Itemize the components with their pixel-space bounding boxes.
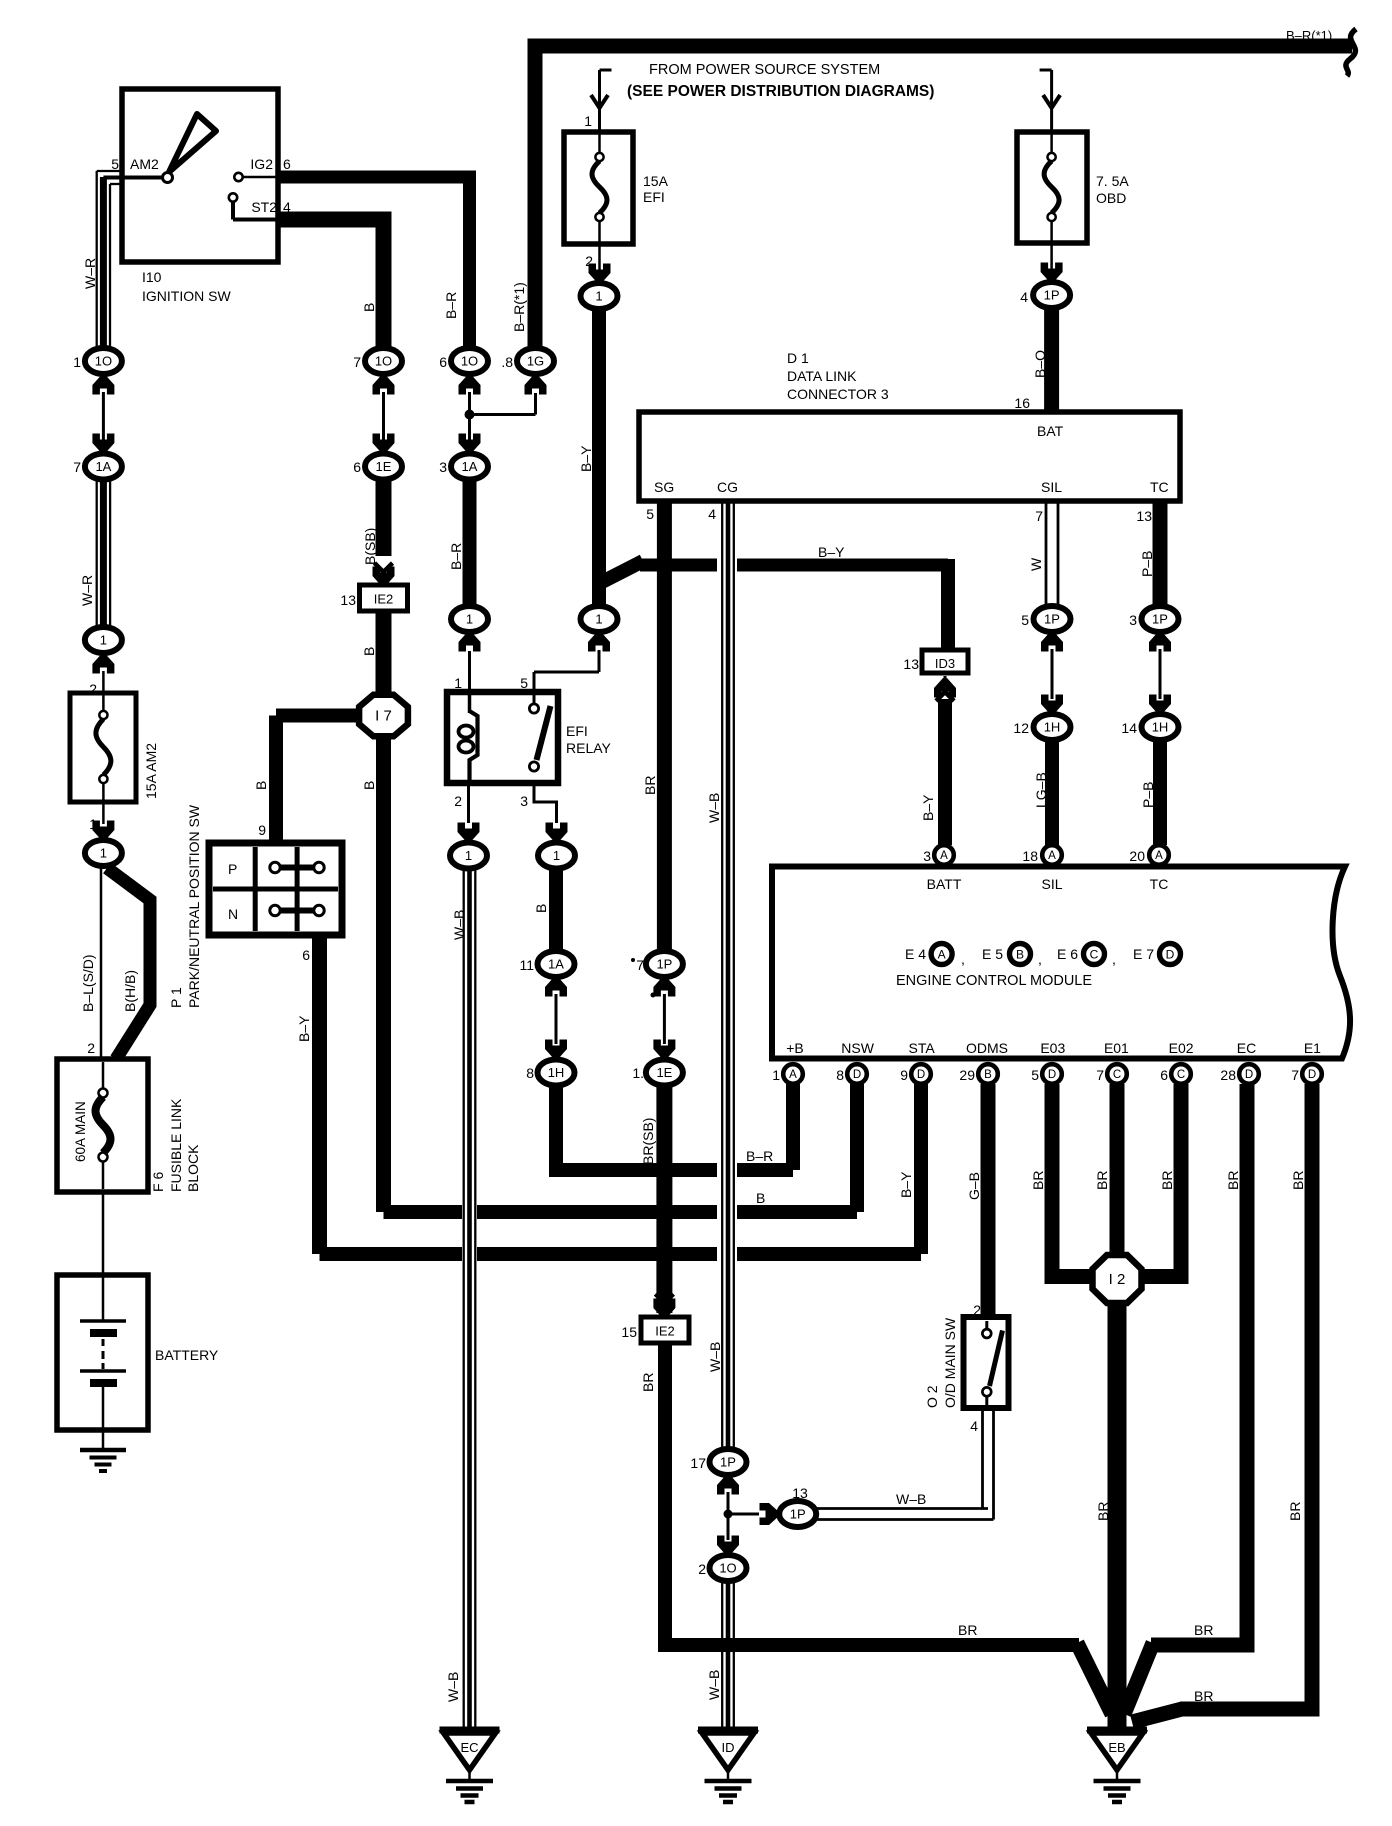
svg-text:1H: 1H (1152, 720, 1169, 735)
svg-text:D: D (917, 1069, 925, 1081)
svg-text:B–R(*1): B–R(*1) (1286, 28, 1332, 43)
svg-text:7: 7 (1035, 508, 1043, 524)
svg-text:4: 4 (970, 1418, 978, 1434)
svg-text:EFI: EFI (566, 723, 588, 739)
svg-text:OBD: OBD (1096, 190, 1126, 206)
svg-text:B–Y: B–Y (920, 794, 936, 821)
svg-text:B–Y: B–Y (578, 445, 594, 472)
svg-text:AM2: AM2 (130, 156, 159, 172)
svg-text:SIL: SIL (1041, 876, 1062, 892)
svg-text:1: 1 (595, 612, 602, 627)
svg-text:O/D MAIN SW: O/D MAIN SW (942, 1317, 958, 1408)
svg-text:(SEE POWER DISTRIBUTION DIAGRA: (SEE POWER DISTRIBUTION DIAGRAMS) (627, 83, 934, 100)
svg-text:E1: E1 (1304, 1040, 1321, 1056)
svg-text:IG2: IG2 (250, 156, 273, 172)
svg-text:CG: CG (717, 479, 738, 495)
svg-text:7: 7 (636, 957, 644, 973)
svg-text:1G: 1G (527, 354, 544, 369)
svg-text:1: 1 (100, 846, 107, 861)
svg-text:BR: BR (1194, 1688, 1213, 1704)
svg-text:D: D (853, 1069, 861, 1081)
svg-text:W–R: W–R (82, 258, 98, 289)
svg-text:2: 2 (87, 1040, 95, 1056)
svg-text:B(H/B): B(H/B) (122, 970, 138, 1012)
svg-text:C: C (1177, 1069, 1185, 1081)
svg-text:17: 17 (690, 1455, 706, 1471)
svg-text:EC: EC (460, 1740, 478, 1755)
svg-text:1E: 1E (376, 459, 392, 474)
svg-text:3: 3 (520, 793, 528, 809)
svg-text:5: 5 (111, 156, 119, 172)
svg-text:E 6: E 6 (1057, 946, 1078, 962)
svg-text:IGNITION SW: IGNITION SW (142, 288, 231, 304)
svg-text:ENGINE CONTROL MODULE: ENGINE CONTROL MODULE (896, 973, 1092, 989)
svg-text:BR: BR (1030, 1171, 1046, 1190)
svg-text:EC: EC (1237, 1040, 1256, 1056)
svg-text:BR: BR (642, 776, 658, 795)
svg-text:E01: E01 (1104, 1040, 1129, 1056)
svg-text:1H: 1H (1044, 720, 1061, 735)
svg-text:1: 1 (553, 848, 560, 863)
svg-text:6: 6 (353, 459, 361, 475)
svg-text:13: 13 (340, 592, 356, 608)
svg-text:D: D (1245, 1069, 1253, 1081)
svg-text:5: 5 (1031, 1067, 1039, 1083)
svg-text:5: 5 (520, 675, 528, 691)
svg-text:13: 13 (1136, 508, 1152, 524)
svg-text:B: B (533, 904, 549, 913)
svg-text:B–R: B–R (746, 1148, 773, 1164)
svg-text:BR: BR (1159, 1171, 1175, 1190)
svg-text:3: 3 (439, 459, 447, 475)
svg-text:6: 6 (283, 156, 291, 172)
svg-text:BR(SB): BR(SB) (640, 1118, 656, 1165)
svg-text:B–Y: B–Y (818, 544, 845, 560)
svg-text:4: 4 (708, 506, 716, 522)
svg-text:B: B (756, 1190, 765, 1206)
svg-text:7: 7 (353, 354, 361, 370)
svg-text:FUSIBLE LINK: FUSIBLE LINK (168, 1098, 184, 1192)
svg-text:1A: 1A (548, 957, 564, 972)
svg-text:4: 4 (1020, 289, 1028, 305)
svg-text:B: B (253, 781, 269, 790)
svg-text:B–R: B–R (443, 292, 459, 319)
svg-text:2: 2 (454, 793, 462, 809)
svg-text:13: 13 (792, 1485, 808, 1501)
svg-text:15: 15 (621, 1324, 637, 1340)
svg-text:BR: BR (1094, 1171, 1110, 1190)
svg-text:W–B: W–B (707, 1342, 723, 1372)
svg-text:BR: BR (640, 1373, 656, 1392)
svg-text:P: P (228, 861, 237, 877)
svg-text:CONNECTOR 3: CONNECTOR 3 (787, 386, 889, 402)
svg-text:1P: 1P (790, 1507, 806, 1522)
svg-text:TC: TC (1150, 479, 1169, 495)
svg-text:28: 28 (1220, 1067, 1236, 1083)
svg-text:W–R: W–R (79, 575, 95, 606)
svg-text:7: 7 (73, 459, 81, 475)
svg-text:B–R: B–R (448, 543, 464, 570)
svg-text:W–B: W–B (706, 793, 722, 823)
svg-text:BR: BR (1095, 1502, 1111, 1521)
svg-text:W–B: W–B (706, 1670, 722, 1700)
svg-text:BATTERY: BATTERY (155, 1347, 219, 1363)
svg-text:A: A (940, 850, 948, 862)
svg-text:20: 20 (1129, 848, 1145, 864)
svg-text:11: 11 (519, 957, 534, 973)
svg-text:SIL: SIL (1041, 479, 1062, 495)
svg-text:15A AM2: 15A AM2 (143, 743, 159, 799)
svg-text:C: C (1113, 1069, 1121, 1081)
svg-text:I 7: I 7 (375, 708, 392, 725)
svg-text:RELAY: RELAY (566, 740, 612, 756)
svg-text:1: 1 (466, 612, 473, 627)
svg-text:1.: 1. (632, 1065, 644, 1081)
svg-text:6: 6 (1160, 1067, 1168, 1083)
svg-text:1A: 1A (462, 459, 478, 474)
svg-text:ID: ID (722, 1740, 735, 1755)
svg-text:7. 5A: 7. 5A (1096, 173, 1129, 189)
svg-text:BLOCK: BLOCK (185, 1144, 201, 1192)
svg-text:D: D (1166, 948, 1175, 962)
svg-text:6: 6 (302, 947, 310, 963)
svg-text:12: 12 (1013, 720, 1029, 736)
svg-text:G–B: G–B (966, 1172, 982, 1200)
svg-text:1: 1 (584, 113, 592, 129)
svg-text:1P: 1P (1044, 288, 1060, 303)
svg-text:B–Y: B–Y (296, 1015, 312, 1042)
svg-text:W–B: W–B (445, 1672, 461, 1702)
svg-text:7: 7 (1096, 1067, 1104, 1083)
svg-text:1H: 1H (548, 1065, 565, 1080)
svg-text:3: 3 (1129, 612, 1137, 628)
svg-text:2: 2 (698, 1561, 706, 1577)
svg-text:N: N (228, 906, 238, 922)
svg-text:EB: EB (1108, 1740, 1125, 1755)
svg-text:1P: 1P (1152, 612, 1168, 627)
svg-text:ID3: ID3 (935, 656, 955, 671)
svg-text:PARK/NEUTRAL POSITION SW: PARK/NEUTRAL POSITION SW (186, 804, 202, 1008)
svg-text:B–R(*1): B–R(*1) (511, 282, 527, 332)
svg-text:ODMS: ODMS (966, 1040, 1008, 1056)
svg-text:3: 3 (923, 848, 931, 864)
svg-text:P–B: P–B (1140, 782, 1156, 808)
svg-text:A: A (789, 1069, 797, 1081)
svg-text:B: B (361, 303, 377, 312)
svg-text:B–Y: B–Y (898, 1171, 914, 1198)
svg-text:P–B: P–B (1139, 551, 1155, 577)
svg-text:W: W (1028, 557, 1044, 571)
svg-text:STA: STA (908, 1040, 935, 1056)
svg-text:A: A (1155, 850, 1163, 862)
svg-text:1: 1 (73, 354, 81, 370)
svg-text:,: , (1112, 951, 1116, 967)
svg-text:E 7: E 7 (1133, 946, 1154, 962)
svg-text:BAT: BAT (1037, 423, 1064, 439)
svg-text:E02: E02 (1169, 1040, 1194, 1056)
svg-text:LG–B: LG–B (1033, 772, 1049, 808)
svg-text:C: C (1090, 948, 1099, 962)
svg-text:FROM POWER SOURCE SYSTEM: FROM POWER SOURCE SYSTEM (649, 62, 880, 78)
svg-text:,: , (961, 951, 965, 967)
svg-text:1E: 1E (656, 1065, 672, 1080)
svg-text:.8: .8 (501, 354, 513, 370)
svg-text:BR: BR (1290, 1171, 1306, 1190)
svg-text:18: 18 (1022, 848, 1038, 864)
svg-text:A: A (1048, 850, 1056, 862)
svg-text:15A: 15A (643, 173, 669, 189)
svg-text:F 6: F 6 (150, 1172, 166, 1192)
svg-text:D: D (1308, 1069, 1316, 1081)
svg-text:B–O: B–O (1032, 350, 1048, 378)
svg-text:14: 14 (1121, 720, 1137, 736)
svg-text:+B: +B (786, 1040, 804, 1056)
svg-text:W–B: W–B (451, 910, 467, 940)
svg-text:ST2: ST2 (251, 199, 277, 215)
svg-text:W–B: W–B (896, 1491, 926, 1507)
svg-text:,: , (1038, 951, 1042, 967)
svg-text:B–L(S/D): B–L(S/D) (80, 954, 96, 1012)
svg-text:E03: E03 (1040, 1040, 1065, 1056)
svg-text:NSW: NSW (841, 1040, 874, 1056)
svg-text:BR: BR (1287, 1502, 1303, 1521)
svg-text:60A MAIN: 60A MAIN (73, 1101, 88, 1162)
svg-text:8: 8 (526, 1065, 534, 1081)
svg-text:1P: 1P (720, 1455, 736, 1470)
svg-text:16: 16 (1014, 395, 1030, 411)
svg-text:IE2: IE2 (655, 1324, 675, 1339)
svg-text:B: B (361, 781, 377, 790)
svg-text:B: B (984, 1069, 992, 1081)
svg-text:1: 1 (595, 289, 602, 304)
svg-text:O 2: O 2 (924, 1385, 940, 1408)
svg-text:BATT: BATT (927, 876, 962, 892)
svg-text:EFI: EFI (643, 189, 665, 205)
svg-text:1O: 1O (95, 354, 112, 369)
svg-text:1O: 1O (375, 354, 392, 369)
svg-text:1A: 1A (95, 459, 111, 474)
svg-text:1O: 1O (719, 1561, 736, 1576)
svg-text:BR: BR (1194, 1622, 1213, 1638)
svg-text:6: 6 (439, 354, 447, 370)
svg-text:BR: BR (1225, 1171, 1241, 1190)
svg-text:E 4: E 4 (905, 946, 926, 962)
svg-text:A: A (938, 948, 946, 962)
svg-text:29: 29 (959, 1067, 975, 1083)
svg-text:B: B (1016, 948, 1024, 962)
svg-text:D: D (1048, 1069, 1056, 1081)
svg-text:1: 1 (100, 633, 107, 648)
svg-text:1: 1 (465, 848, 472, 863)
svg-text:I 2: I 2 (1109, 1271, 1126, 1288)
svg-text:SG: SG (654, 479, 674, 495)
svg-text:DATA LINK: DATA LINK (787, 368, 857, 384)
svg-text:1: 1 (772, 1067, 780, 1083)
svg-text:B: B (361, 647, 377, 656)
svg-text:D 1: D 1 (787, 350, 809, 366)
svg-text:1P: 1P (656, 957, 672, 972)
svg-text:P 1: P 1 (168, 987, 184, 1008)
svg-text:5: 5 (1021, 612, 1029, 628)
svg-text:1P: 1P (1044, 612, 1060, 627)
svg-text:7: 7 (1291, 1067, 1299, 1083)
svg-text:5: 5 (646, 506, 654, 522)
svg-text:BR: BR (958, 1622, 977, 1638)
svg-text:I10: I10 (142, 269, 162, 285)
svg-text:TC: TC (1150, 876, 1169, 892)
svg-text:E 5: E 5 (982, 946, 1003, 962)
svg-text:9: 9 (258, 822, 266, 838)
svg-text:1O: 1O (461, 354, 478, 369)
svg-text:13: 13 (903, 656, 919, 672)
svg-text:9: 9 (900, 1067, 908, 1083)
svg-text:B(SB): B(SB) (362, 528, 378, 565)
svg-text:8: 8 (836, 1067, 844, 1083)
svg-text:IE2: IE2 (374, 592, 394, 607)
svg-text:1: 1 (454, 675, 462, 691)
